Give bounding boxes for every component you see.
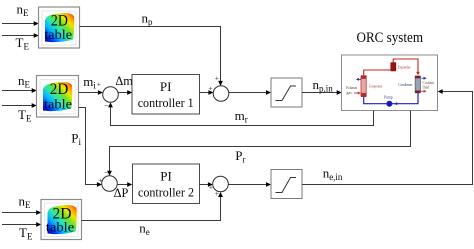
label mi [83, 74, 96, 91]
label Pi [71, 131, 81, 148]
svg-text:Pump: Pump [384, 95, 393, 99]
label ne [139, 220, 150, 237]
label Coolant fluid [423, 81, 434, 89]
wire S3 to PI controller 2 [117, 182, 132, 187]
wire S4 to saturation block SAT2 [228, 182, 271, 187]
wire Pr : ORC bottom feedback to summer S3 [107, 111, 410, 176]
svg-text:−: − [104, 168, 109, 177]
wire ne,in : SAT2 right, up, into ORC right edge [302, 89, 473, 184]
wire TE into B1 [2, 33, 39, 38]
wire mr : ORC bottom feedback to summer S1 [108, 102, 373, 125]
label Condenser [398, 83, 413, 87]
svg-text:table: table [46, 220, 75, 235]
svg-text:+: + [215, 73, 219, 82]
label ORC system [357, 30, 424, 46]
label dm [115, 73, 132, 88]
PI controller 1 block [132, 75, 200, 115]
label TE (input to table B3) [19, 225, 33, 242]
svg-text:−: − [104, 102, 109, 111]
svg-text:PI: PI [160, 79, 172, 94]
lookup table block B3 "2D table" [41, 200, 82, 240]
label Pump [384, 95, 393, 99]
svg-text:ORC system: ORC system [357, 30, 424, 46]
saturation block SAT2 [271, 170, 302, 199]
summer S1 [97, 79, 118, 110]
svg-text:2D: 2D [50, 81, 69, 98]
svg-text:Evaporator: Evaporator [369, 84, 383, 88]
label dP [114, 185, 129, 200]
ORC hot pipe expander to condenser [393, 59, 420, 75]
exhaust gas in arrow (red) [354, 92, 361, 95]
svg-text:controller 1: controller 1 [138, 95, 194, 110]
svg-text:Expander: Expander [398, 66, 411, 70]
lookup table block B2 "2D table" [37, 76, 79, 118]
svg-text:table: table [44, 27, 72, 42]
svg-text:+: + [97, 79, 101, 88]
wire ne : B3 output to summer S4 bottom [82, 192, 223, 221]
svg-text:Exhaust: Exhaust [346, 86, 358, 90]
wire S1 to PI controller 1 [118, 90, 132, 95]
wire mi : B2 output to summer S1 [79, 90, 103, 95]
coolant in arrow (blue) [422, 77, 427, 80]
wire nE into B3 [2, 210, 41, 215]
wire TE into B3 [2, 222, 41, 227]
svg-text:+: + [215, 189, 219, 198]
ORC evaporator vessel [361, 75, 367, 97]
summer S3 [98, 168, 117, 191]
ORC cold pipe condenser to pump to evaporator [364, 93, 418, 105]
ORC system block frame [342, 55, 438, 111]
label np,in [313, 77, 334, 94]
ORC hot pipe evaporator to expander [364, 70, 391, 75]
svg-text:table: table [44, 97, 72, 112]
wire TE into B2 [2, 103, 37, 108]
summer S2 [208, 73, 229, 101]
label TE (input to table B1) [16, 35, 30, 52]
summer S4 [209, 176, 228, 198]
label TE (input to table B2) [18, 107, 32, 124]
svg-text:ΔP: ΔP [114, 185, 129, 200]
wire np,in : SAT1 to ORC block [302, 90, 342, 95]
svg-text:+: + [208, 83, 212, 92]
label nE (input to table B3) [19, 193, 32, 210]
label Exhaust gas [346, 86, 358, 95]
label nE (input to table B2) [18, 73, 31, 90]
wire np : B1 output to summer S2 top [80, 27, 223, 86]
wire Pi : B2 second output down to summer S3 [79, 108, 102, 187]
label nE (input to table B1) [17, 1, 30, 18]
wire nE into B2 [2, 88, 37, 93]
label mr [235, 108, 248, 125]
label Evaporator [369, 84, 383, 88]
ORC pump [386, 101, 392, 107]
svg-text:gas: gas [347, 91, 353, 95]
exhaust gas out arrow (blue) [356, 78, 361, 81]
lookup table block B1 "2D table" [39, 7, 80, 48]
svg-text:PI: PI [160, 169, 172, 184]
label Pr [235, 148, 245, 165]
PI controller 2 block [133, 164, 200, 204]
svg-text:+: + [98, 176, 102, 185]
saturation block SAT1 [271, 78, 302, 107]
wire nE into B1 [2, 21, 39, 26]
label np [142, 10, 154, 27]
wire PI1 to summer S2 [200, 90, 214, 95]
label ne,in [323, 166, 343, 183]
ORC expander [391, 63, 396, 72]
ORC condenser vessel [415, 76, 421, 94]
label Expander [398, 66, 411, 70]
svg-text:Δm: Δm [115, 73, 132, 88]
wire PI2 to summer S4 [200, 182, 213, 187]
svg-text:+: + [209, 183, 213, 192]
svg-text:controller 2: controller 2 [138, 185, 194, 200]
coolant out arrow (brown) [421, 90, 427, 93]
svg-text:fluid: fluid [423, 85, 430, 89]
svg-text:Condenser: Condenser [398, 83, 413, 87]
wire S2 to saturation block SAT1 [229, 90, 271, 95]
